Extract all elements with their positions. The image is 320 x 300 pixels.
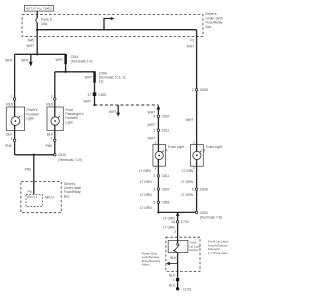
wire C506 down	[94, 83, 96, 105]
svg-text:C610: C610	[58, 153, 66, 157]
wire fuse box exit down to splice bus	[36, 37, 38, 55]
arrow continuation down (mid stub)	[109, 105, 120, 117]
connector C514	[55, 54, 92, 64]
switch box trunk lid light switch	[168, 237, 188, 252]
label Fuse 8 15A	[41, 18, 52, 27]
svg-text:WHT: WHT	[55, 58, 63, 62]
fuse F8 symbol	[36, 18, 37, 23]
connector pin 2 (driver light)	[6, 95, 16, 106]
svg-text:LT GRN: LT GRN	[181, 193, 193, 197]
svg-text:LT GRN: LT GRN	[140, 206, 152, 210]
connector C655 pin 5	[154, 201, 170, 205]
arrow continuation right (top)	[104, 17, 114, 30]
svg-text:1: 1	[51, 136, 53, 140]
wire C514 down to bus2	[65, 64, 67, 72]
svg-text:PNK: PNK	[25, 167, 33, 171]
wire trunk ground bus	[158, 211, 196, 213]
svg-text:LT GRN: LT GRN	[140, 193, 152, 197]
svg-text:2: 2	[192, 88, 194, 92]
node ground bus junction	[33, 154, 35, 156]
wire horizontal feed to F2	[37, 29, 196, 31]
svg-text:Switch: Switch	[189, 248, 198, 252]
wire through passenger lamp box	[54, 107, 56, 131]
svg-text:2: 2	[155, 166, 157, 170]
svg-text:M45: M45	[28, 38, 35, 42]
arrow continuation down (splice bus)	[29, 54, 33, 66]
connector C611 pin 2	[154, 174, 170, 178]
connector pin 1 (passenger light)	[46, 136, 56, 148]
svg-text:Light: Light	[65, 120, 72, 124]
connector C608 pin 2	[192, 88, 208, 92]
wire trunk A ground path	[157, 166, 159, 212]
wire switch to ground	[177, 253, 179, 289]
wire from HOT box to fuse	[36, 11, 38, 18]
svg-text:WHT: WHT	[109, 110, 117, 114]
svg-text:Trunk Light: Trunk Light	[206, 145, 222, 149]
svg-text:P6: P6	[28, 190, 32, 194]
svg-text:WHT: WHT	[148, 123, 156, 127]
label Trunk Light B	[203, 145, 222, 153]
svg-text:PNK: PNK	[46, 144, 54, 148]
svg-text:2: 2	[11, 95, 13, 99]
lamp passenger's footwell bulb	[51, 116, 60, 125]
svg-text:2: 2	[154, 174, 156, 178]
connector C607 pin 4	[154, 115, 170, 119]
svg-text:1: 1	[173, 278, 175, 282]
svg-text:C514: C514	[71, 55, 79, 59]
svg-text:LT GRN: LT GRN	[139, 169, 151, 173]
svg-text:WHT: WHT	[83, 99, 91, 103]
node bus left end	[157, 211, 159, 213]
svg-text:C608: C608	[200, 88, 208, 92]
lamp trunk A bulb	[155, 151, 164, 160]
label Power Door Lock/Keyless Entry/Security Alarm	[142, 252, 161, 267]
svg-text:Light: Light	[26, 117, 33, 121]
wire dashed continuation to trunk feed	[95, 104, 159, 106]
lamp box front passenger's footwell light	[47, 107, 63, 131]
svg-text:Box: Box	[206, 25, 212, 29]
svg-text:Alarm: Alarm	[142, 262, 150, 266]
svg-text:RM LT 1: RM LT 1	[27, 195, 38, 199]
connector C734 pin 16	[171, 220, 189, 224]
wire through trunk light B	[196, 145, 198, 167]
wire bus2 horizontal	[55, 71, 95, 73]
svg-text:WHT: WHT	[5, 58, 13, 62]
svg-text:RED: RED	[46, 103, 54, 107]
svg-text:C801: C801	[99, 93, 107, 97]
node fuse output junction	[36, 29, 38, 31]
trunk lid latch assembly box (dashed)	[166, 237, 200, 271]
label Trunk Lid Light Switch	[189, 241, 201, 253]
svg-text:F2: F2	[190, 38, 194, 42]
svg-text:2: 2	[51, 95, 53, 99]
svg-text:3: 3	[154, 129, 156, 133]
svg-text:PNK: PNK	[5, 144, 13, 148]
svg-text:MICU: MICU	[46, 196, 55, 200]
wire fuse to junction	[36, 23, 38, 37]
MICU inner dashed box	[26, 194, 55, 206]
svg-text:C607: C607	[162, 187, 170, 191]
wire through driver lamp box	[14, 107, 16, 131]
svg-text:C734: C734	[181, 220, 189, 224]
svg-text:HOT AT ALL TIMES: HOT AT ALL TIMES	[26, 7, 52, 11]
svg-text:LT GRN: LT GRN	[182, 169, 194, 173]
svg-text:C655: C655	[162, 201, 170, 205]
svg-text:16: 16	[171, 220, 175, 224]
connector C653	[195, 211, 221, 220]
MICU under-dash fuse/relay box (dashed)	[21, 182, 61, 213]
connector pin 2 (passenger light)	[46, 95, 56, 106]
connector C607 pin 8	[154, 187, 170, 191]
lamp trunk B bulb	[193, 151, 202, 160]
label Driver's Under-dash Fuse/Relay Box (MICU)	[64, 182, 81, 199]
svg-text:C653: C653	[200, 211, 208, 215]
wire driver light ground exit	[14, 131, 16, 155]
wire PNK drop to MICU	[33, 155, 35, 195]
wire passenger light ground exit	[54, 131, 56, 155]
svg-text:WHT: WHT	[148, 137, 156, 141]
wire through trunk light A	[157, 145, 159, 167]
svg-text:(Terminals 7-10): (Terminals 7-10)	[58, 158, 82, 162]
lamp box trunk light A	[153, 145, 166, 167]
svg-text:C611: C611	[162, 129, 170, 133]
trunk feed arrow from dashed wire	[157, 105, 161, 145]
lamp driver's footwell bulb	[11, 116, 20, 126]
ground G731	[176, 287, 192, 291]
connector C801 pin 17	[87, 92, 106, 97]
node dashed start	[93, 104, 95, 106]
trunk light B feed wire (right column)	[196, 37, 198, 145]
driver footwell drop wire	[14, 54, 16, 107]
lamp box driver's footwell light	[6, 107, 24, 131]
wire drop to trunk lid switch	[177, 212, 179, 237]
svg-text:C607: C607	[162, 115, 170, 119]
svg-text:5: 5	[154, 201, 156, 205]
svg-text:WHT: WHT	[21, 58, 29, 62]
svg-text:17: 17	[87, 93, 91, 97]
svg-text:BLK: BLK	[169, 274, 176, 278]
connector C610	[54, 153, 82, 162]
wire splice bus horizontal	[15, 53, 66, 55]
connector pin 1 (driver light)	[5, 136, 16, 148]
connector pin 1 (ground path)	[173, 278, 180, 282]
wire F2 drop inside box	[196, 30, 198, 37]
svg-text:WHT: WHT	[84, 75, 92, 79]
svg-text:(Terminals 7-8): (Terminals 7-8)	[200, 216, 222, 220]
svg-text:C608: C608	[200, 187, 208, 191]
svg-text:(Terminals 1-4): (Terminals 1-4)	[71, 60, 93, 64]
arrow to power door lock system	[166, 262, 177, 266]
svg-text:15A: 15A	[41, 22, 48, 26]
svg-text:5: 5	[192, 187, 194, 191]
svg-text:8: 8	[154, 187, 156, 191]
svg-text:BLK: BLK	[170, 256, 177, 260]
connector C608 pin 5	[192, 187, 208, 191]
svg-text:4: 4	[154, 115, 156, 119]
svg-text:G731: G731	[183, 287, 191, 291]
connector C611 pin 3	[154, 129, 170, 133]
svg-text:WHT: WHT	[187, 45, 195, 49]
label HOT AT ALL TIMES box	[24, 6, 53, 12]
svg-text:RED: RED	[6, 103, 14, 107]
svg-text:BLK: BLK	[169, 283, 176, 287]
svg-text:1: 1	[11, 136, 13, 140]
driver's under-dash fuse/relay box (dashed)	[22, 15, 203, 37]
node splice junction	[36, 53, 38, 55]
label Driver's Under-dash Fuse/Relay Box (top right)	[206, 12, 223, 29]
svg-text:Fuse 8: Fuse 8	[41, 18, 52, 22]
node trunk bus junction	[176, 212, 180, 216]
svg-text:Box: Box	[64, 194, 70, 198]
wire ground bus (footwell lights)	[15, 154, 55, 156]
svg-text:12): 12)	[99, 80, 104, 84]
passenger footwell drop wire	[54, 72, 56, 107]
connector C506	[84, 71, 126, 83]
svg-text:WHT: WHT	[26, 44, 34, 48]
svg-text:LT GRN: LT GRN	[181, 180, 193, 184]
svg-text:2: 2	[174, 230, 176, 234]
label Trunk Light A	[165, 145, 184, 153]
svg-text:C611: C611	[162, 174, 170, 178]
lamp box trunk light B	[191, 145, 204, 167]
svg-text:WHT: WHT	[186, 118, 194, 122]
label Trunk Lid Latch Switch/Opener Solenoid	[208, 240, 229, 255]
wire trunk B ground path	[196, 166, 198, 212]
label Front Passenger's Footwell Light	[65, 108, 83, 125]
label Driver's Footwell Light	[26, 108, 39, 120]
svg-text:1 = Trunk open: 1 = Trunk open	[208, 251, 228, 255]
svg-text:Trunk Light: Trunk Light	[168, 145, 184, 149]
node bus2 junction	[64, 71, 66, 73]
svg-text:LT GRN: LT GRN	[140, 180, 152, 184]
